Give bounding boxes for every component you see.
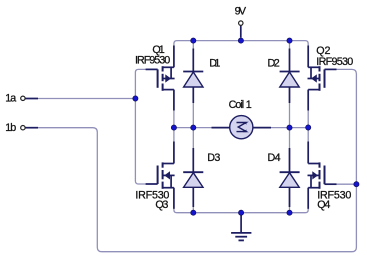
svg-text:IRF9530: IRF9530 [316,56,353,68]
svg-text:D3: D3 [207,152,220,164]
svg-text:Coil: Coil [229,99,245,111]
svg-text:Q3: Q3 [155,199,168,211]
svg-text:1a: 1a [5,93,16,105]
svg-text:1b: 1b [5,122,16,134]
svg-text:IRF9530: IRF9530 [135,55,170,67]
svg-text:D2: D2 [268,57,280,69]
svg-text:Q4: Q4 [317,199,330,211]
svg-text:D1: D1 [209,57,220,69]
svg-text:9V: 9V [235,5,247,17]
svg-text:1: 1 [246,99,252,111]
svg-text:D4: D4 [268,152,281,164]
